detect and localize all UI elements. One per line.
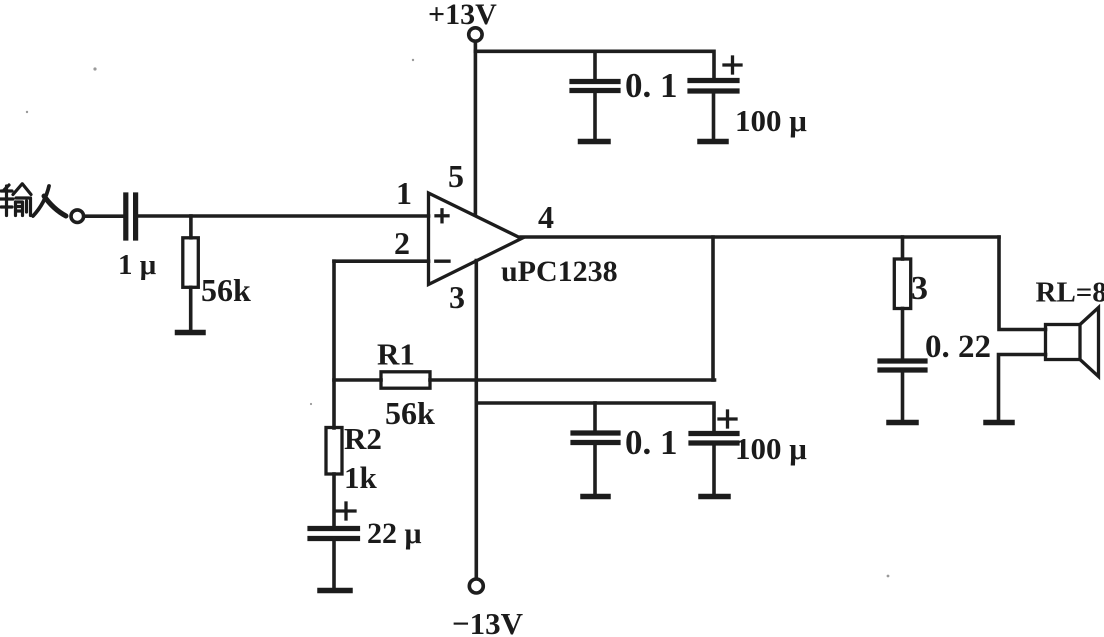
capacitor C-top-100u polarity plus [724, 57, 741, 73]
svg-text:2: 2 [394, 225, 410, 261]
capacitor C-bot-100u polarity plus [719, 411, 736, 427]
resistor R3 Zobel 3 ohm [894, 237, 910, 361]
wire output down to feedback [711, 237, 715, 380]
node -13V terminal circle [469, 579, 483, 593]
svg-text:0. 1: 0. 1 [625, 66, 678, 105]
svg-text:1: 1 [396, 175, 412, 211]
svg-text:100 μ: 100 μ [735, 103, 807, 138]
wire top supply rail [475, 51, 714, 80]
svg-text:56k: 56k [385, 395, 435, 431]
svg-text:R2: R2 [344, 421, 382, 456]
svg-text:RL=8: RL=8 [1036, 277, 1104, 309]
speaker RL [1046, 308, 1099, 377]
wire +13V vertical to pin 5 [474, 42, 478, 215]
svg-text:+13V: +13V [428, 0, 497, 31]
wire coupling cap to op-amp plus input [136, 214, 429, 218]
resistor R1 [334, 372, 715, 388]
wire speaker minus to ground [999, 355, 1046, 421]
svg-text:4: 4 [538, 199, 554, 235]
ground (top 0.1 cap) [581, 139, 609, 145]
capacitor C 22u polarity plus [337, 503, 355, 519]
svg-text:R1: R1 [377, 337, 415, 372]
svg-text:0. 22: 0. 22 [925, 329, 991, 365]
svg-text:3: 3 [911, 270, 928, 307]
svg-text:0. 1: 0. 1 [625, 423, 678, 462]
node input terminal circle [71, 210, 84, 223]
ground (top 100u cap) [700, 139, 726, 145]
capacitor C 22u [310, 529, 358, 589]
svg-text:1k: 1k [344, 460, 378, 495]
resistor R2 [326, 428, 342, 528]
svg-text:22 μ: 22 μ [367, 517, 422, 550]
ground (bottom 100u cap) [701, 494, 728, 500]
ground (bottom 0.1 cap) [583, 494, 608, 500]
capacitor C-bot-0.1 [573, 403, 618, 494]
svg-text:56k: 56k [201, 272, 251, 308]
svg-text:−13V: −13V [452, 606, 524, 637]
wire output to speaker plus [999, 237, 1046, 330]
capacitor C-top-100u [690, 81, 737, 140]
node +13V terminal circle [469, 28, 482, 41]
ground (input 56k) [178, 330, 204, 336]
capacitor C 0.22 [880, 361, 925, 420]
op-amp plus input mark [436, 210, 448, 222]
wire op-amp output to right [521, 235, 999, 239]
scan speck marks [26, 59, 890, 578]
wire pin 3 down to -13V [474, 261, 478, 578]
capacitor C-bot-100u [691, 434, 737, 495]
ground (speaker) [986, 420, 1012, 426]
svg-text:3: 3 [449, 279, 465, 315]
wire input to coupling cap [84, 214, 126, 218]
svg-text:uPC1238: uPC1238 [501, 255, 618, 288]
label shuru (input) hand-drawn CJK [0, 184, 66, 216]
svg-text:1 μ: 1 μ [118, 249, 157, 281]
op-amp U1 triangle [429, 193, 522, 285]
ground (22u cap) [320, 588, 350, 594]
capacitor C-in 1u [126, 195, 136, 238]
wire lower supply rail [476, 403, 714, 433]
svg-text:100 μ: 100 μ [735, 431, 807, 466]
wire minus input to feedback node [334, 259, 429, 263]
ground (0.22 cap) [889, 420, 916, 426]
capacitor C-top-0.1 [572, 51, 618, 139]
resistor 56k input [183, 216, 199, 330]
svg-text:5: 5 [448, 158, 464, 194]
wire feedback node vertical [332, 261, 336, 428]
op-amp minus input mark [436, 260, 449, 263]
